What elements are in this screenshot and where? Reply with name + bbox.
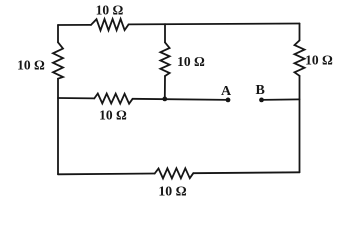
wire top horizontal (left corner to top resistor) [58,24,91,26]
svg-text:10 Ω: 10 Ω [158,183,186,198]
wire bottom horizontal (bottom resistor to bottom-right corner) [193,171,299,174]
label node B [256,83,265,98]
wire right vertical (top segment) [299,24,301,41]
wire middle horizontal (resistor to terminal A) [133,99,228,100]
svg-text:10 Ω: 10 Ω [305,53,333,68]
svg-text:10 Ω: 10 Ω [177,54,205,69]
label R1 value 10 Ω [96,3,124,18]
svg-text:B: B [256,83,265,98]
resistor R4 10 Ω (right branch) [295,40,305,75]
label R4 value 10 Ω [305,53,333,68]
label node A [221,84,232,99]
resistor R1 10 Ω (top wire) [91,19,129,31]
svg-text:A: A [221,84,232,99]
wire right vertical (bottom segment) [299,76,301,173]
wire left vertical (top segment) [57,25,59,42]
resistor R3 10 Ω (middle vertical branch) [160,42,169,76]
wire top horizontal (top resistor to top-right corner) [129,23,300,26]
wire middle branch vertical (top wire down to resistor) [164,24,166,42]
label R2 value 10 Ω [17,57,45,72]
junction node dot (middle wire / middle branch) [162,97,167,102]
wire left vertical (bottom segment) [57,79,59,175]
wire middle branch vertical (resistor down to junction) [164,76,166,99]
svg-text:10 Ω: 10 Ω [96,3,124,18]
resistor R2 10 Ω (left branch) [53,42,63,78]
svg-text:10 Ω: 10 Ω [17,57,45,72]
node A terminal dot [226,98,231,103]
label R3 value 10 Ω [177,54,205,69]
label R5 value 10 Ω [99,107,127,122]
resistor R6 10 Ω (bottom wire) [155,168,194,178]
svg-text:10 Ω: 10 Ω [99,107,127,122]
label R6 value 10 Ω [158,183,186,198]
resistor R5 10 Ω (middle horizontal wire) [94,94,132,104]
node B terminal dot [259,98,264,103]
wire middle horizontal (left wire to resistor) [58,97,94,99]
wire bottom horizontal (left corner to bottom resistor) [58,173,155,176]
wire middle horizontal (terminal B to right wire) [262,98,300,101]
